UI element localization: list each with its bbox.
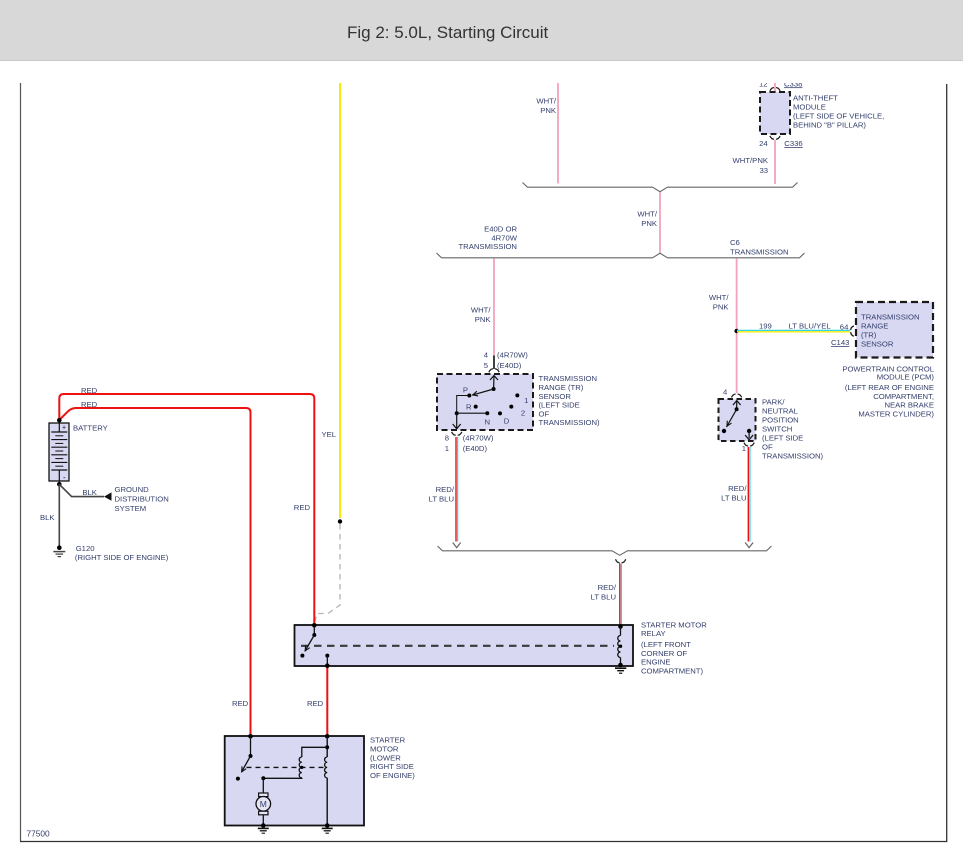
svg-text:OF: OF: [762, 443, 773, 452]
motor ground symbol: [258, 828, 269, 833]
node junction to PCM: [734, 329, 738, 333]
wire BLK to G120: [58, 484, 60, 546]
svg-text:33: 33: [759, 166, 768, 175]
svg-text:PARK/: PARK/: [762, 398, 785, 407]
P/N switch entry arrow: [733, 401, 741, 406]
header bar: [0, 0, 963, 61]
svg-text:4: 4: [723, 388, 728, 397]
svg-text:COMPARTMENT): COMPARTMENT): [641, 666, 704, 675]
connector symbol bottom of P/N switch: [744, 443, 754, 446]
TR sensor entry arrow: [490, 376, 498, 381]
brace splice 2: [437, 253, 805, 258]
node yellow wire end junction: [338, 519, 342, 523]
off-page arrow ground distribution: [104, 492, 112, 500]
wire WHT/PNK vertical top-left feed: [557, 78, 559, 184]
svg-text:TRANSMISSION): TRANSMISSION): [539, 418, 601, 427]
svg-text:YEL: YEL: [321, 430, 336, 439]
relay ground symbol: [615, 668, 626, 673]
svg-text:(LEFT FRONT: (LEFT FRONT: [641, 640, 691, 649]
connector symbol top of anti-theft module: [770, 88, 780, 91]
svg-text:1: 1: [445, 444, 449, 453]
svg-text:TRANSMISSION: TRANSMISSION: [458, 242, 517, 251]
ground G120 symbol: [53, 552, 65, 557]
relay coil L1: [620, 627, 622, 636]
anti-theft module U1 box: [760, 92, 790, 134]
node coil1/link: [300, 766, 303, 769]
main ground symbol: [322, 828, 333, 833]
PCM TR sensor input box: [856, 302, 933, 358]
svg-text:RANGE (TR): RANGE (TR): [539, 383, 584, 392]
svg-text:C6: C6: [730, 238, 740, 247]
pin lead black TR sensor: [493, 356, 495, 370]
frame border bottom: [20, 841, 947, 843]
contact P: [467, 394, 471, 398]
wire YEL vertical: [339, 78, 341, 518]
wire WHT/PNK between braces: [659, 192, 661, 253]
top clip cover: [0, 61, 963, 83]
park/neutral position switch box: [719, 399, 756, 441]
TR sensor selector arm: [472, 389, 494, 395]
wire RED battery to starter motor: [59, 408, 250, 736]
connector symbol top of P/N switch: [732, 394, 742, 397]
contact N: [485, 411, 489, 415]
relay switch contact: [300, 654, 304, 658]
svg-text:(4R70W): (4R70W): [497, 351, 528, 360]
wire WHT/PNK to park/neutral switch: [736, 259, 738, 394]
motor ground node: [261, 823, 266, 828]
wire WHT/PNK to TR sensor: [493, 259, 495, 356]
svg-text:LT BLU: LT BLU: [429, 495, 454, 504]
svg-text:ANTI-THEFT: ANTI-THEFT: [793, 94, 838, 103]
svg-text:OF ENGINE): OF ENGINE): [370, 771, 415, 780]
svg-text:LT BLU: LT BLU: [721, 494, 746, 503]
starter motor relay K1 box: [295, 625, 634, 666]
svg-text:CORNER OF: CORNER OF: [641, 649, 687, 658]
svg-text:4: 4: [484, 351, 489, 360]
relay output node: [325, 663, 330, 668]
relay coil node bottom: [618, 663, 623, 668]
ground G120 node: [57, 545, 62, 550]
relay output contact: [325, 654, 329, 658]
svg-text:1: 1: [742, 444, 746, 453]
wire RED/LT BLU from TR sensor: [455, 437, 457, 542]
svg-text:BATTERY: BATTERY: [73, 423, 108, 432]
svg-text:(E40D): (E40D): [497, 361, 522, 370]
TR sensor pivot node: [492, 387, 496, 391]
pull-in coil: [299, 757, 302, 778]
svg-text:E40D OR: E40D OR: [484, 225, 517, 234]
starter mechanical dashed link: [247, 766, 326, 768]
relay switch: [313, 625, 315, 635]
svg-text:STARTER MOTOR: STARTER MOTOR: [641, 620, 707, 629]
svg-text:77500: 77500: [27, 828, 50, 838]
svg-text:R: R: [466, 402, 472, 411]
svg-text:MODULE (PCM): MODULE (PCM): [877, 372, 935, 381]
P/N switch output contact: [747, 429, 751, 433]
wire BLK to ground distribution: [59, 484, 104, 496]
svg-text:BEHIND "B" PILLAR): BEHIND "B" PILLAR): [793, 121, 866, 130]
svg-text:RED/: RED/: [598, 583, 617, 592]
arrow into brace: [453, 543, 461, 548]
starter motor box: [225, 736, 364, 826]
svg-text:OF: OF: [539, 409, 550, 418]
relay coil node top: [618, 624, 623, 629]
battery B1 box: [49, 423, 69, 481]
svg-text:(LEFT SIDE OF VEHICLE,: (LEFT SIDE OF VEHICLE,: [793, 112, 884, 121]
svg-text:WHT/: WHT/: [709, 293, 730, 302]
svg-text:5: 5: [484, 361, 488, 370]
wire WHT/PNK to anti-theft module pin 12: [774, 78, 776, 92]
wire dashed gray link to relay: [314, 524, 340, 624]
svg-text:RELAY: RELAY: [641, 629, 666, 638]
svg-text:TRANSMISSION: TRANSMISSION: [539, 374, 598, 383]
svg-text:SYSTEM: SYSTEM: [115, 504, 147, 513]
wire WHT/PNK 33 from module to brace: [774, 140, 776, 184]
svg-text:WHT/: WHT/: [637, 210, 658, 219]
svg-text:LT BLU: LT BLU: [591, 593, 616, 602]
svg-text:D: D: [504, 417, 510, 426]
svg-text:4R70W: 4R70W: [491, 233, 517, 242]
battery plates: [51, 423, 67, 484]
svg-text:COMPARTMENT,: COMPARTMENT,: [873, 392, 934, 401]
svg-text:PNK: PNK: [475, 315, 492, 324]
connector symbol below brace 3: [616, 559, 626, 563]
motor M1: [262, 778, 264, 793]
svg-text:P: P: [463, 385, 468, 394]
node motor branch: [261, 776, 265, 780]
svg-text:SENSOR: SENSOR: [539, 392, 572, 401]
relay mechanical dashed link: [301, 645, 614, 647]
starter input node left: [248, 734, 253, 739]
wire junction to N contact: [457, 412, 488, 414]
svg-text:RED: RED: [232, 699, 249, 708]
wire from P to output: [457, 396, 470, 414]
svg-text:RED/: RED/: [436, 485, 455, 494]
svg-text:2: 2: [521, 409, 525, 418]
svg-text:MASTER CYLINDER): MASTER CYLINDER): [858, 409, 934, 418]
wire pull-in coil to motor: [263, 777, 302, 780]
TR sensor exit arrow: [456, 413, 458, 428]
svg-text:64: 64: [840, 323, 849, 332]
svg-text:DISTRIBUTION: DISTRIBUTION: [115, 494, 169, 503]
starter switch contact: [236, 777, 240, 781]
brace splice 3: [438, 546, 772, 555]
svg-text:RED/: RED/: [728, 484, 747, 493]
P/N switch pivot node: [735, 407, 739, 411]
svg-text:ENGINE: ENGINE: [641, 658, 670, 667]
svg-text:BLK: BLK: [82, 488, 97, 497]
svg-text:NEUTRAL: NEUTRAL: [762, 407, 799, 416]
svg-text:RIGHT SIDE: RIGHT SIDE: [370, 762, 414, 771]
svg-text:RED: RED: [81, 386, 98, 395]
contact 1: [515, 393, 519, 397]
wire RED battery to relay: [59, 394, 314, 625]
starter switch: [250, 736, 252, 756]
svg-text:WHT/: WHT/: [536, 97, 557, 106]
svg-text:RED: RED: [307, 699, 324, 708]
svg-text:PNK: PNK: [641, 219, 658, 228]
svg-text:(E40D): (E40D): [463, 444, 488, 453]
node output junction: [455, 411, 459, 415]
svg-text:(RIGHT SIDE OF ENGINE): (RIGHT SIDE OF ENGINE): [75, 553, 169, 562]
brace splice 1: [523, 183, 798, 192]
svg-text:MOTOR: MOTOR: [370, 745, 399, 754]
svg-text:Fig 2: 5.0L, Starting Circuit: Fig 2: 5.0L, Starting Circuit: [347, 23, 549, 42]
svg-text:199: 199: [759, 322, 772, 331]
svg-text:POSITION: POSITION: [762, 416, 799, 425]
svg-text:WHT/PNK: WHT/PNK: [733, 156, 769, 165]
svg-text:TRANSMISSION: TRANSMISSION: [730, 248, 789, 257]
svg-text:C143: C143: [831, 338, 849, 347]
wire RED/LT BLU from P/N switch: [747, 447, 749, 542]
svg-text:+: +: [62, 425, 66, 432]
svg-text:(LEFT SIDE: (LEFT SIDE: [539, 401, 580, 410]
svg-text:C336: C336: [784, 139, 802, 148]
connector symbol bottom of anti-theft module: [770, 136, 780, 139]
svg-text:(LEFT SIDE: (LEFT SIDE: [762, 434, 803, 443]
svg-text:SENSOR: SENSOR: [861, 340, 894, 349]
svg-text:1: 1: [524, 396, 528, 405]
svg-text:LT BLU/YEL: LT BLU/YEL: [789, 322, 832, 331]
starter main wire right: [326, 736, 328, 757]
wire LT BLU/YEL to PCM: [737, 329, 850, 331]
svg-text:NEAR BRAKE: NEAR BRAKE: [884, 401, 934, 410]
svg-text:RANGE: RANGE: [861, 322, 888, 331]
transmission range sensor box: [437, 374, 533, 430]
svg-text:STARTER: STARTER: [370, 736, 406, 745]
arrow into brace: [745, 543, 753, 548]
svg-text:SWITCH: SWITCH: [762, 425, 792, 434]
node pull-in branch: [325, 745, 329, 749]
connector symbol at PCM pin 64: [851, 326, 854, 336]
svg-text:G120: G120: [76, 544, 95, 553]
svg-text:WHT/: WHT/: [471, 306, 492, 315]
svg-text:PNK: PNK: [540, 106, 557, 115]
svg-text:-: -: [63, 473, 66, 482]
svg-text:(LOWER: (LOWER: [370, 753, 401, 762]
svg-text:BLK: BLK: [40, 513, 55, 522]
svg-text:GROUND: GROUND: [115, 485, 150, 494]
battery node bottom: [57, 482, 62, 487]
svg-text:(LEFT REAR OF ENGINE: (LEFT REAR OF ENGINE: [845, 383, 934, 392]
svg-text:N: N: [485, 417, 491, 426]
wire RED/LT BLU to relay: [619, 564, 621, 626]
svg-text:TRANSMISSION: TRANSMISSION: [861, 313, 920, 322]
main wire ground node: [325, 823, 330, 828]
battery node top: [57, 418, 62, 423]
relay input node: [312, 623, 317, 628]
svg-text:MODULE: MODULE: [793, 103, 826, 112]
node coil/dashed link: [619, 645, 622, 648]
svg-text:PNK: PNK: [713, 303, 730, 312]
wire RED relay to starter motor: [326, 666, 328, 736]
svg-text:(4R70W): (4R70W): [463, 433, 494, 442]
P/N switch arm: [727, 409, 737, 427]
svg-text:8: 8: [445, 433, 449, 442]
P/N switch contact: [722, 429, 726, 433]
svg-text:(TR): (TR): [861, 331, 877, 340]
frame border left: [20, 83, 22, 842]
svg-text:24: 24: [759, 139, 768, 148]
contact D: [498, 411, 502, 415]
contact 2: [509, 405, 513, 409]
svg-text:RED: RED: [294, 503, 311, 512]
svg-text:M: M: [260, 799, 267, 809]
connector symbol top of TR sensor: [489, 369, 499, 372]
svg-text:TRANSMISSION): TRANSMISSION): [762, 452, 824, 461]
svg-text:RED: RED: [81, 400, 98, 409]
hold-in coil: [325, 757, 328, 778]
wire to pull-in coil: [302, 747, 327, 757]
frame border right: [946, 84, 948, 842]
starter input node right: [325, 734, 330, 739]
contact R: [474, 405, 478, 409]
connector symbol bottom of TR sensor: [452, 432, 462, 435]
